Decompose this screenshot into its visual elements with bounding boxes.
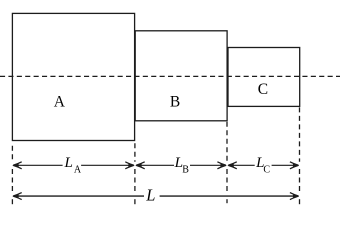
svg-text:L: L: [64, 155, 73, 171]
extension line right: [299, 107, 301, 205]
svg-text:B: B: [182, 165, 189, 176]
dimension line LA right segment: [81, 164, 133, 166]
arrowhead L right: [290, 193, 299, 200]
segment C rectangle: [228, 48, 300, 107]
svg-text:C: C: [258, 81, 268, 98]
arrowhead LC left: [228, 162, 237, 169]
extension line B-C: [226, 122, 228, 203]
svg-text:L: L: [145, 186, 155, 205]
extension line A-B: [134, 143, 136, 205]
arrowhead LB left: [136, 162, 145, 169]
segment B rectangle: [135, 31, 227, 121]
svg-text:A: A: [74, 165, 82, 176]
extension line left: [11, 146, 13, 205]
arrowhead L left: [13, 193, 22, 200]
dimension line LB right segment: [190, 164, 225, 166]
arrowhead LB right: [217, 162, 226, 169]
dimension line LC right segment: [272, 164, 298, 166]
arrowhead LA right: [125, 162, 134, 169]
arrowhead LC right: [290, 162, 299, 169]
svg-text:A: A: [54, 94, 66, 111]
dimension line LB left segment: [137, 164, 174, 166]
segment A rectangle: [12, 13, 134, 140]
arrowhead LA left: [13, 162, 22, 169]
svg-text:B: B: [170, 94, 180, 111]
dimension line LA left segment: [14, 164, 63, 166]
svg-text:C: C: [263, 165, 270, 176]
dimension line L right segment: [160, 195, 298, 197]
centerline: [0, 75, 340, 77]
dimension line L left segment: [14, 195, 144, 197]
dimension line LC left segment: [229, 164, 255, 166]
